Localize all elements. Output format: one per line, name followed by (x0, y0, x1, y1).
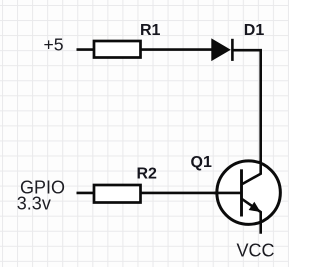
Q1 collector: vertical into circle and diagonal to bar (242, 160, 260, 184)
Q1 emitter arrow (250, 203, 260, 212)
Q1 base bar (240, 169, 243, 216)
diode D1 anode triangle (212, 39, 230, 60)
svg-text:3.3v: 3.3v (17, 194, 51, 214)
svg-text:Q1: Q1 (191, 154, 212, 171)
Q1 emitter diagonal and lead down (242, 199, 261, 234)
svg-text:D1: D1 (244, 22, 265, 39)
svg-text:+5: +5 (44, 34, 64, 54)
Q1 base wire inside circle (214, 192, 242, 195)
svg-text:VCC: VCC (237, 240, 275, 260)
svg-text:R1: R1 (140, 22, 161, 39)
wire from D1 cathode, corner, down to Q1 collector (232, 50, 260, 170)
wire from GPIO to R2 (77, 192, 95, 195)
wire from R1 to D1 (141, 48, 213, 51)
resistor R1 (94, 41, 141, 58)
transistor Q1 body circle (217, 161, 281, 225)
wire from R2 to Q1 base (141, 192, 217, 195)
svg-text:R2: R2 (137, 166, 158, 183)
diode D1 cathode bar (231, 39, 234, 61)
resistor R2 (94, 185, 141, 203)
wire from +5 to R1 (77, 48, 95, 51)
